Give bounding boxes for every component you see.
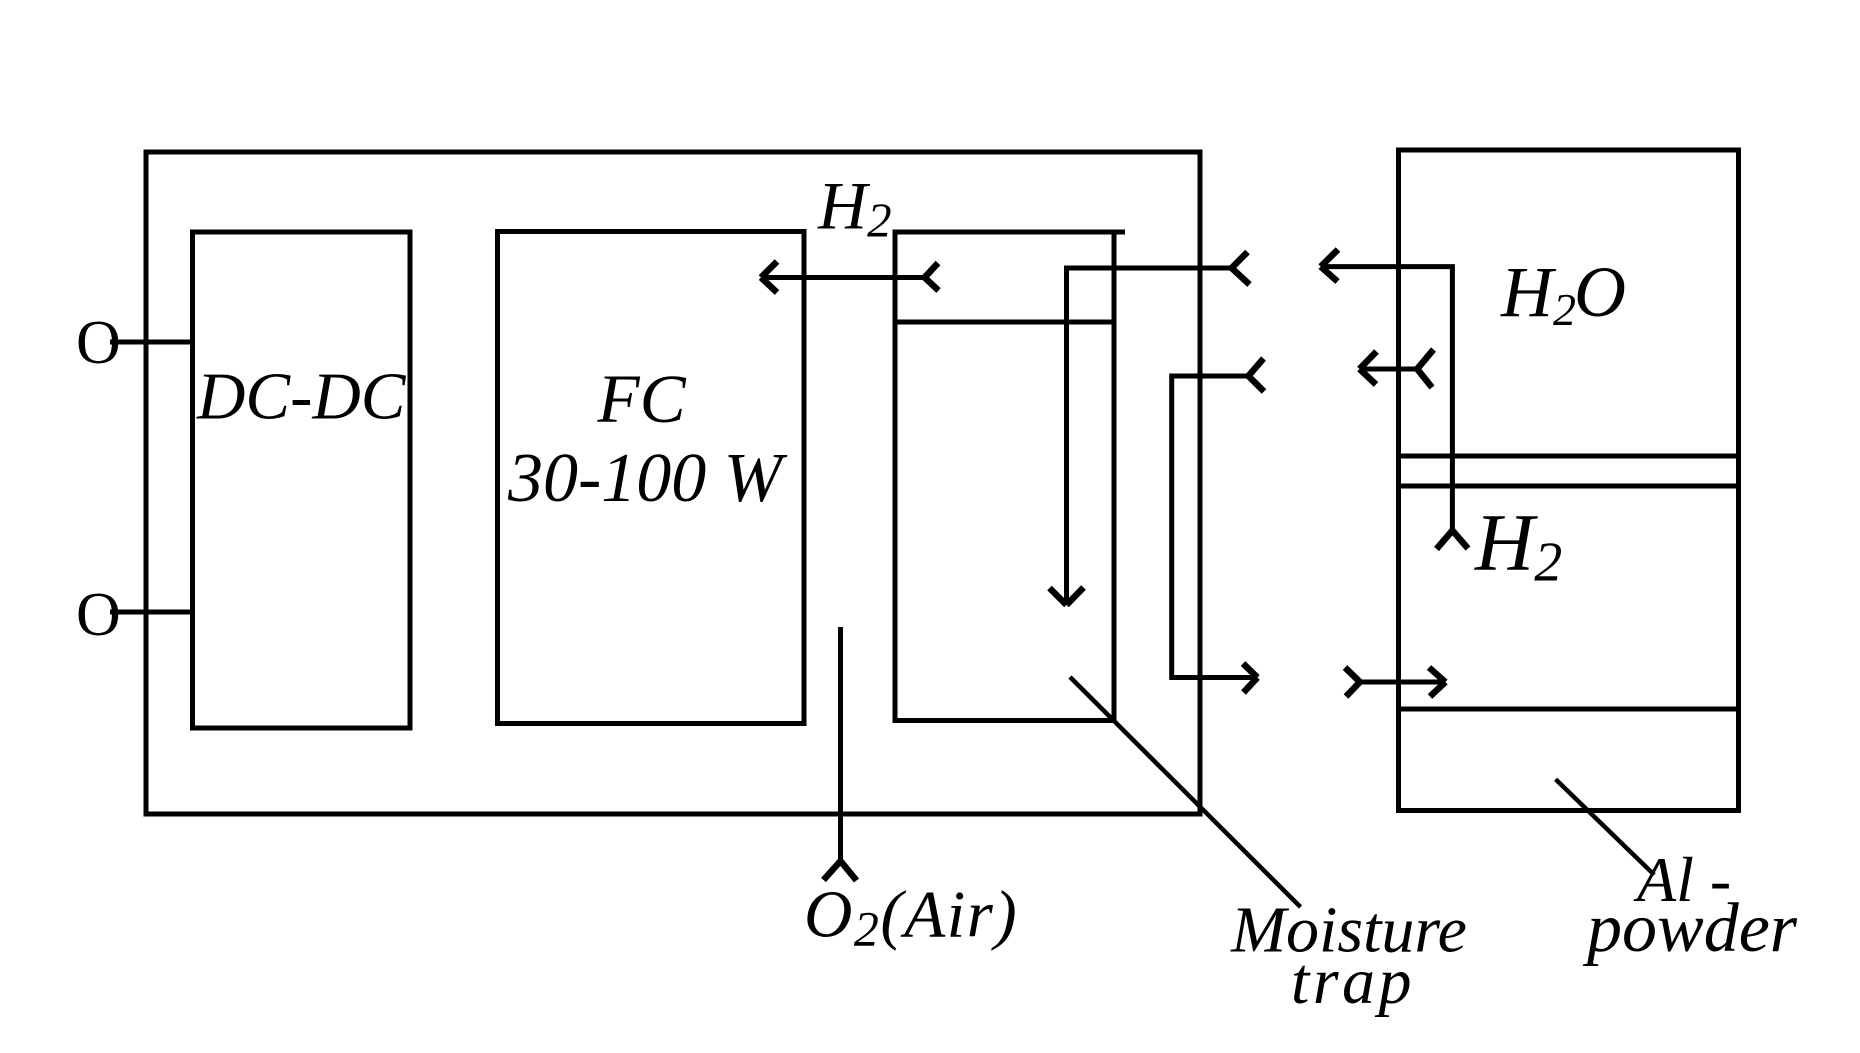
O2 air intake line [838, 627, 843, 861]
svg-text:O2(Air): O2(Air) [804, 878, 1018, 957]
reactor Al-powder bed top line [1399, 707, 1739, 712]
svg-text:DC-DC: DC-DC [196, 360, 407, 434]
svg-text:30-100 W: 30-100 W [507, 440, 788, 517]
H2 feed arrow into FC [761, 275, 925, 280]
Al-powder reactor box [1399, 150, 1739, 811]
H2O outflow arrow from reactor [1321, 267, 1453, 531]
pointer line to Al-powder label [1556, 779, 1655, 875]
fuel cell FC box [498, 232, 805, 724]
moisture trap vessel [893, 230, 1126, 721]
reactor divider line lower [1399, 484, 1739, 489]
svg-text:O: O [76, 309, 121, 377]
svg-text:trap: trap [1291, 945, 1415, 1018]
reactor inlet arrow [1360, 680, 1446, 685]
outer system enclosure box [146, 152, 1200, 814]
svg-text:FC: FC [597, 361, 687, 437]
svg-text:H2: H2 [817, 168, 892, 248]
water recirculation arrow [1360, 367, 1418, 372]
moisture trap water level line [893, 320, 1115, 325]
wire H2 tube into moisture trap with down arrow [1067, 268, 1232, 605]
pointer line to Moisture trap label [1070, 677, 1301, 907]
wire to terminal O1 [110, 340, 193, 345]
svg-text:powder: powder [1582, 890, 1798, 967]
reactor divider line upper [1399, 454, 1739, 459]
svg-text:H2O: H2O [1500, 252, 1626, 335]
DC-DC converter box [193, 232, 411, 728]
wire to terminal O2 [110, 610, 193, 615]
svg-text:O: O [76, 581, 121, 649]
wire gas tube from moisture trap side [1172, 376, 1258, 678]
svg-text:H2: H2 [1474, 497, 1562, 594]
